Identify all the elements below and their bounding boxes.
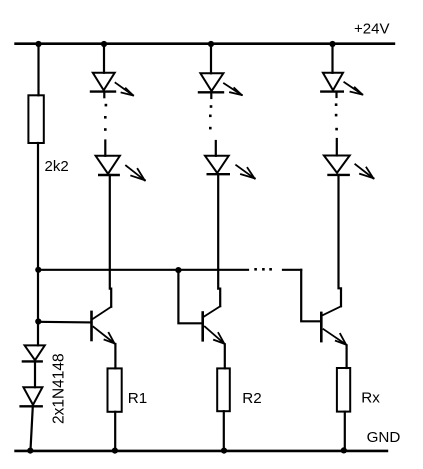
node: Q1 base tap bbox=[35, 318, 41, 324]
svg-text:+24V: +24V bbox=[354, 21, 389, 38]
base rail ellipsis dots bbox=[254, 268, 272, 271]
ground rail bbox=[16, 450, 387, 453]
dotted wire column 1 bbox=[104, 104, 107, 131]
wire stub above LED D32 bbox=[336, 139, 338, 156]
wire: resistor 2k2 to diodes bbox=[37, 143, 39, 345]
wire stub below D31 bbox=[335, 92, 337, 97]
base rail wire (right segment) bbox=[283, 269, 301, 271]
svg-text:2x1N4148: 2x1N4148 bbox=[51, 353, 68, 424]
transistor Q1 bbox=[92, 307, 115, 344]
transistor Q3 bbox=[321, 306, 346, 344]
dotted wire column 2 bbox=[209, 105, 212, 129]
node: Rx-ground junction bbox=[341, 447, 347, 453]
resistor 2k2 bbox=[28, 95, 43, 143]
svg-text:2k2: 2k2 bbox=[45, 158, 69, 175]
node: rail-col2 junction bbox=[208, 41, 214, 47]
wire: rail to LED D31 bbox=[331, 44, 333, 73]
node: R2-ground junction bbox=[221, 448, 227, 454]
node: Q2 base tap junction bbox=[175, 267, 181, 273]
node: rail-left junction bbox=[35, 41, 41, 47]
LED D22 light arrow bbox=[236, 165, 255, 178]
base rail wire bbox=[38, 269, 248, 271]
LED D12 light arrow bbox=[126, 166, 145, 181]
wire: R1 to ground rail bbox=[114, 412, 116, 450]
wire: Q2 base tap bbox=[178, 270, 201, 323]
svg-text:R1: R1 bbox=[128, 390, 147, 407]
svg-text:GND: GND bbox=[367, 429, 401, 446]
wire: D1 to D2 bbox=[34, 361, 36, 387]
wire stub below D21 bbox=[210, 92, 212, 98]
LED D32 light arrow bbox=[355, 164, 373, 178]
LED D12 bbox=[96, 156, 120, 175]
wire: Q2 emitter to R2 bbox=[224, 345, 226, 369]
dotted wire column 3 bbox=[335, 103, 338, 130]
transistor Q2 bbox=[203, 306, 225, 344]
LED D11 bbox=[91, 73, 115, 92]
wire: D2 to ground rail bbox=[31, 406, 33, 450]
diode D1 (1N4148) bbox=[23, 345, 45, 361]
resistor R1 bbox=[108, 368, 122, 411]
node: rail-col3 junction bbox=[329, 41, 335, 47]
wire stub above LED D22 bbox=[215, 141, 217, 156]
LED D22 bbox=[205, 156, 229, 174]
wire: rail to LED D11 bbox=[103, 44, 105, 73]
wire: R2 to ground rail bbox=[223, 411, 225, 450]
diode D2 (1N4148) bbox=[21, 387, 43, 406]
wire stub above LED D12 bbox=[104, 141, 106, 156]
node: rail-col1 junction bbox=[101, 41, 107, 47]
LED D32 bbox=[324, 156, 350, 175]
wire: Q1 base bbox=[38, 321, 91, 324]
LED D31 bbox=[321, 73, 343, 92]
+24V supply rail bbox=[16, 42, 394, 45]
LED D31 light arrow bbox=[344, 82, 362, 94]
wire: D12 to Q1 collector bbox=[110, 175, 111, 307]
wire: D22 to Q2 collector bbox=[218, 174, 220, 306]
LED D11 light arrow bbox=[116, 83, 134, 96]
svg-text:R2: R2 bbox=[242, 390, 261, 407]
LED D21 bbox=[199, 73, 223, 92]
node: diode-ground junction bbox=[27, 448, 33, 454]
wire: Q1 emitter to R1 bbox=[114, 344, 116, 368]
wire: rail to resistor 2k2 bbox=[37, 44, 39, 95]
node: base rail tap bbox=[35, 267, 41, 273]
resistor R2 bbox=[217, 368, 230, 411]
node: R1-ground junction bbox=[112, 448, 118, 454]
svg-text:Rx: Rx bbox=[361, 390, 380, 407]
wire: Q3 base tap bbox=[301, 270, 319, 322]
wire stub below D11 bbox=[103, 92, 105, 98]
wire: D32 to Q3 collector bbox=[339, 175, 342, 306]
wire: Q3 emitter to Rx bbox=[346, 346, 348, 369]
wire: Rx to ground rail bbox=[344, 412, 346, 450]
LED D21 light arrow bbox=[224, 83, 242, 95]
wire: rail to LED D21 bbox=[210, 44, 212, 73]
resistor Rx bbox=[337, 368, 350, 412]
